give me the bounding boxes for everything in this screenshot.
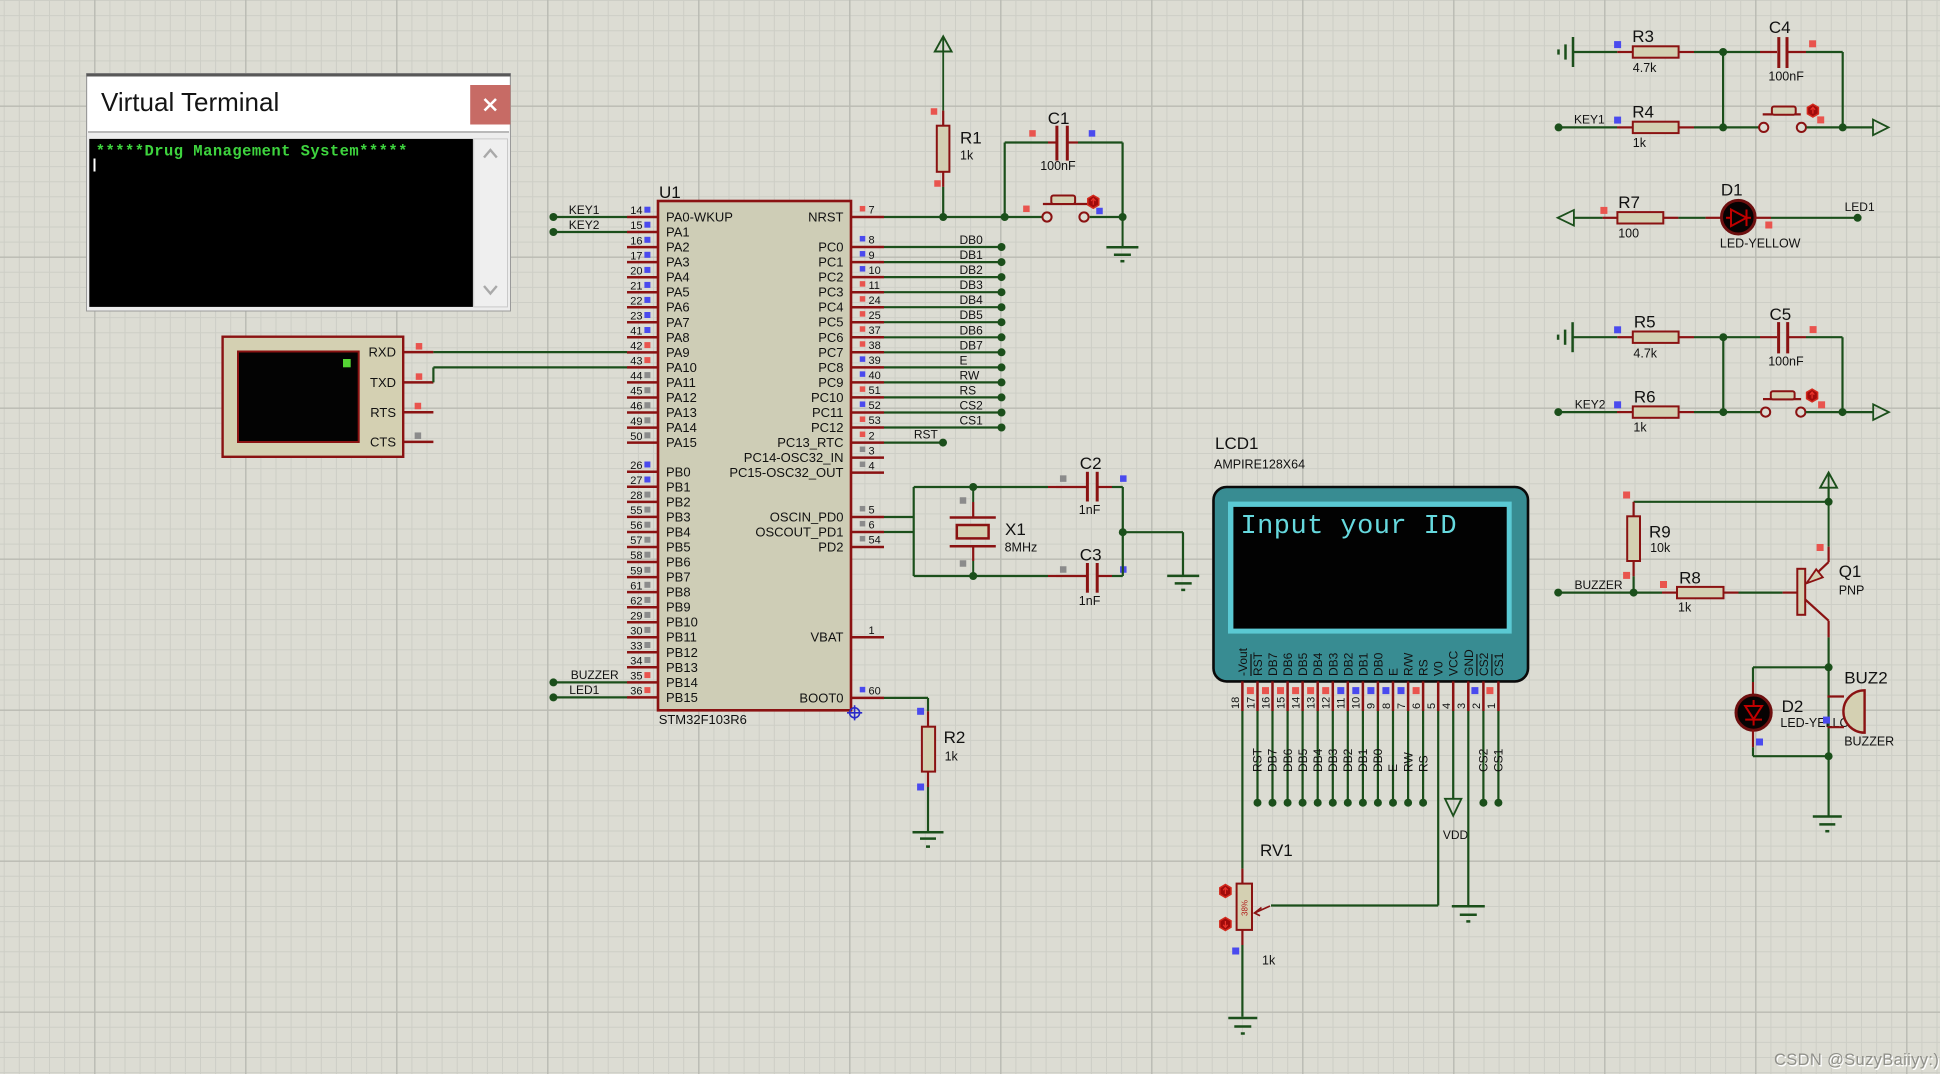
svg-text:7: 7: [1396, 703, 1408, 709]
wire R1 to NRST: [942, 187, 944, 217]
svg-text:8MHz: 8MHz: [1005, 541, 1038, 555]
node DB4: [960, 293, 984, 307]
svg-text:PB9: PB9: [666, 600, 691, 615]
svg-text:6: 6: [869, 520, 875, 532]
wire NRST net: [884, 213, 1127, 221]
ground below C1: [1106, 217, 1138, 261]
svg-text:52: 52: [869, 400, 881, 412]
wire net DB3: [884, 288, 1006, 296]
resistor R7: [1600, 193, 1678, 241]
svg-text:30: 30: [630, 625, 642, 637]
svg-text:1nF: 1nF: [1079, 594, 1101, 608]
svg-text:PA0-WKUP: PA0-WKUP: [666, 210, 733, 225]
svg-text:100nF: 100nF: [1040, 159, 1076, 173]
node CS2 below LCD: [1477, 748, 1491, 772]
wire net DB2: [884, 273, 1006, 281]
wire LCD pin 4 to VDD: [1452, 711, 1454, 799]
wire LCD pin 7 net RW: [1404, 711, 1412, 807]
svg-text:DB5: DB5: [960, 308, 984, 322]
wire D2 down: [1752, 730, 1754, 756]
svg-text:7: 7: [869, 205, 875, 217]
svg-text:R4: R4: [1632, 103, 1654, 122]
svg-text:CS2: CS2: [1477, 748, 1491, 772]
svg-text:53: 53: [869, 415, 881, 427]
node DB2: [960, 263, 984, 277]
svg-text:38%: 38%: [1241, 900, 1250, 916]
svg-text:Q1: Q1: [1839, 562, 1862, 581]
svg-text:PA8: PA8: [666, 330, 690, 345]
svg-text:C4: C4: [1769, 18, 1791, 37]
svg-text:R5: R5: [1634, 313, 1656, 332]
wire KEY2 to U1 pin 15: [549, 228, 627, 236]
capacitor C1: [1005, 109, 1123, 217]
wire BUZ2 to ground: [1827, 756, 1829, 815]
svg-text:5: 5: [869, 505, 875, 517]
svg-text:R2: R2: [944, 728, 966, 747]
svg-text:DB6: DB6: [960, 323, 984, 337]
svg-text:PB6: PB6: [666, 555, 691, 570]
IC U1 STM32F103R6: [627, 183, 884, 727]
wire net DB1: [884, 258, 1006, 266]
wire KEY2 terminal row: [1554, 408, 1617, 416]
wire LCD pin 12 net DB3: [1329, 711, 1337, 807]
svg-text:VDD: VDD: [1443, 828, 1469, 842]
svg-text:D2: D2: [1782, 697, 1804, 716]
svg-text:16: 16: [1260, 697, 1272, 709]
svg-text:27: 27: [630, 475, 642, 487]
no-ERC marker at U1 corner: [847, 705, 862, 720]
LCD1 pin stubs and numbers: [1230, 681, 1498, 711]
svg-text:35: 35: [630, 671, 642, 683]
resistor R3: [1614, 27, 1694, 75]
svg-text:PC0: PC0: [818, 240, 843, 255]
svg-text:DB0: DB0: [1371, 652, 1385, 676]
capacitor C5: [1723, 305, 1842, 369]
wire LCD pin 1 net CS1: [1494, 711, 1502, 807]
svg-text:44: 44: [630, 371, 642, 383]
svg-text:PC15-OSC32_OUT: PC15-OSC32_OUT: [729, 465, 843, 480]
svg-text:4.7k: 4.7k: [1633, 61, 1657, 75]
wire LCD pin 11 net DB2: [1344, 711, 1352, 807]
node KEY1 right: [1574, 113, 1605, 127]
svg-text:11: 11: [1336, 698, 1348, 709]
wire LCD pin 14 net DB5: [1299, 711, 1307, 807]
svg-text:24: 24: [869, 295, 881, 307]
svg-text:PC3: PC3: [818, 285, 843, 300]
svg-text:DB7: DB7: [1266, 748, 1280, 772]
node DB3 below LCD: [1326, 748, 1340, 772]
svg-text:RTS: RTS: [370, 405, 396, 420]
svg-text:DB7: DB7: [960, 338, 984, 352]
svg-text:R6: R6: [1634, 387, 1656, 406]
svg-text:21: 21: [630, 280, 642, 292]
wire collector to D2: [1753, 666, 1829, 668]
svg-text:DB1: DB1: [960, 248, 984, 262]
node DB1: [960, 248, 984, 262]
virtual terminal popup window: [87, 74, 511, 312]
svg-text:VCC: VCC: [1447, 650, 1461, 676]
svg-text:DB4: DB4: [1311, 748, 1325, 772]
wire LCD pin 17 net RST: [1254, 711, 1262, 807]
node CS2: [960, 399, 984, 413]
svg-text:*****Drug Management System***: *****Drug Management System*****: [96, 142, 408, 160]
svg-text:E: E: [1387, 668, 1401, 676]
capacitor C4: [1723, 18, 1843, 84]
node DB3: [960, 278, 984, 292]
node BUZZER right: [1575, 578, 1623, 592]
transistor Q1 PNP: [1783, 502, 1865, 638]
svg-text:PC13_RTC: PC13_RTC: [777, 435, 843, 450]
svg-text:59: 59: [630, 565, 642, 577]
svg-text:1k: 1k: [945, 750, 959, 764]
wire LCD pin 5 V0 to RV1 wiper: [1271, 711, 1438, 906]
wire LCD pin 9 net DB0: [1374, 711, 1382, 807]
svg-text:RST: RST: [1251, 747, 1265, 772]
svg-text:PC9: PC9: [818, 375, 843, 390]
resistor R8: [1660, 569, 1739, 615]
wire BUZZER to U1 pin 35: [549, 678, 627, 686]
node E: [960, 353, 968, 367]
wire C5 down to KEY2 row: [1841, 337, 1843, 412]
svg-text:PA14: PA14: [666, 420, 697, 435]
node DB5 below LCD: [1296, 748, 1310, 772]
wire riser to ground: [1123, 532, 1183, 575]
wire R5 to C5 node: [1694, 333, 1727, 341]
node RW below LCD: [1401, 752, 1415, 772]
svg-text:BOOT0: BOOT0: [799, 690, 843, 705]
wire net CS2: [884, 409, 1006, 417]
wire LED1 to U1 pin 36: [549, 693, 627, 701]
LED D1: [1706, 181, 1801, 251]
svg-text:55: 55: [630, 505, 642, 517]
svg-text:-Vout: -Vout: [1236, 647, 1250, 676]
svg-text:11: 11: [869, 280, 880, 292]
wire LCD pin 15 net DB6: [1284, 711, 1292, 807]
wire power to R1: [942, 52, 944, 111]
LED D2: [1736, 667, 1861, 745]
wire net E: [884, 363, 1006, 371]
node RW: [960, 368, 980, 382]
wire Q1 to BUZ2 riser: [1827, 667, 1829, 756]
svg-text:PA7: PA7: [666, 315, 690, 330]
resistor R2: [917, 708, 965, 791]
wire net RW: [884, 378, 1006, 386]
wire C4 node down to KEY1 row: [1722, 52, 1724, 127]
wire crystal bottom: [914, 572, 1048, 580]
svg-text:KEY2: KEY2: [569, 218, 600, 232]
svg-text:R1: R1: [960, 129, 982, 148]
svg-text:PA6: PA6: [666, 300, 690, 315]
wire R3 to C4 node: [1694, 48, 1727, 56]
capacitor C2: [1048, 454, 1127, 517]
wire D2 to BUZ2 node: [1753, 752, 1833, 760]
svg-text:2: 2: [1471, 703, 1483, 709]
svg-text:62: 62: [630, 595, 642, 607]
wire LCD pin 3 to ground: [1467, 711, 1469, 906]
wire net DB5: [884, 318, 1006, 326]
wire TXD to U1 pin 43: [433, 367, 627, 382]
wire KEY1 to U1 pin 14: [549, 213, 627, 221]
svg-text:PB5: PB5: [666, 540, 691, 555]
svg-text:16: 16: [630, 235, 642, 247]
svg-text:PC6: PC6: [818, 330, 843, 345]
svg-text:DB0: DB0: [960, 233, 984, 247]
wire top to R9: [1634, 501, 1829, 503]
svg-text:4.7k: 4.7k: [1633, 347, 1657, 361]
wire R8 to Q1 base: [1739, 591, 1783, 593]
svg-text:PC14-OSC32_IN: PC14-OSC32_IN: [744, 450, 844, 465]
svg-text:10k: 10k: [1650, 541, 1671, 555]
power +V above R1: [935, 36, 952, 51]
node KEY2 right: [1575, 398, 1606, 412]
wire ground to R3: [1573, 51, 1617, 53]
wire crystal top: [914, 483, 1048, 491]
wire R9 to BUZZER row: [1632, 576, 1634, 592]
crystal X1: [950, 487, 1038, 576]
svg-text:DB3: DB3: [960, 278, 984, 292]
svg-text:43: 43: [630, 356, 642, 368]
virtual terminal instrument VT1: [223, 337, 434, 457]
svg-text:PB8: PB8: [666, 585, 691, 600]
svg-text:KEY1: KEY1: [569, 203, 600, 217]
svg-text:41: 41: [630, 326, 642, 338]
svg-text:CS1: CS1: [1492, 748, 1506, 772]
svg-text:OSCOUT_PD1: OSCOUT_PD1: [755, 525, 843, 540]
svg-text:PC2: PC2: [818, 270, 843, 285]
wire R4 to button KEY1: [1694, 123, 1759, 131]
svg-text:PB1: PB1: [666, 479, 691, 494]
svg-text:C3: C3: [1080, 546, 1102, 565]
wire net DB0: [884, 243, 1006, 251]
svg-text:17: 17: [630, 250, 642, 262]
potentiometer RV1: [1220, 841, 1293, 968]
node DB6 below LCD: [1281, 748, 1295, 772]
svg-text:PB11: PB11: [666, 630, 697, 645]
node DB7: [960, 338, 984, 352]
push button RESET: [1023, 195, 1103, 221]
svg-text:23: 23: [630, 311, 642, 323]
wire C5 node down to KEY2 row: [1722, 337, 1724, 412]
wire R7 to D1: [1678, 217, 1705, 219]
svg-text:9: 9: [869, 250, 875, 262]
svg-text:15: 15: [1275, 697, 1287, 709]
svg-text:8: 8: [1381, 703, 1393, 709]
svg-text:TXD: TXD: [370, 375, 396, 390]
svg-text:CSDN @SuzyBaiiyy:): CSDN @SuzyBaiiyy:): [1774, 1051, 1939, 1069]
svg-text:18: 18: [1230, 697, 1242, 709]
svg-text:PA3: PA3: [666, 255, 690, 270]
node RS: [960, 383, 977, 397]
ground below LCD pin 3: [1452, 906, 1485, 921]
svg-text:DB1: DB1: [1356, 652, 1370, 676]
svg-text:VBAT: VBAT: [811, 630, 844, 645]
resistor R9: [1623, 492, 1671, 579]
svg-text:100: 100: [1618, 227, 1639, 241]
node DB4 below LCD: [1311, 748, 1325, 772]
svg-text:4: 4: [869, 460, 875, 472]
resistor R5: [1614, 313, 1694, 361]
push button KEY2: [1761, 389, 1825, 417]
svg-text:R9: R9: [1649, 523, 1671, 542]
svg-text:BUZZER: BUZZER: [1844, 735, 1894, 749]
svg-text:PA1: PA1: [666, 225, 690, 240]
svg-text:LED1: LED1: [1845, 200, 1875, 214]
svg-text:1k: 1k: [1633, 421, 1647, 435]
terminal arrow left of R7: [1558, 210, 1574, 226]
svg-text:26: 26: [630, 460, 642, 472]
node DB0 below LCD: [1371, 748, 1385, 772]
svg-text:BUZ2: BUZ2: [1844, 669, 1887, 688]
svg-text:PC4: PC4: [818, 300, 843, 315]
wire LCD pin 2 net CS2: [1479, 711, 1487, 807]
svg-text:PB14: PB14: [666, 675, 698, 690]
svg-text:PA9: PA9: [666, 345, 690, 360]
svg-text:58: 58: [630, 550, 642, 562]
wire OSCIN_PD0: [884, 516, 914, 518]
wire D1 to LED1 node: [1771, 214, 1862, 222]
svg-text:22: 22: [630, 295, 642, 307]
svg-text:PA12: PA12: [666, 390, 697, 405]
svg-text:PB15: PB15: [666, 690, 698, 705]
capacitor C3: [1048, 546, 1127, 609]
svg-text:KEY2: KEY2: [1575, 398, 1606, 412]
node LED1: [569, 683, 599, 697]
wire LCD pin 13 net DB4: [1314, 711, 1322, 807]
svg-text:15: 15: [630, 220, 642, 232]
node BUZZER: [571, 668, 619, 682]
svg-text:PC7: PC7: [818, 345, 843, 360]
svg-text:8: 8: [869, 235, 875, 247]
svg-text:U1: U1: [659, 183, 681, 202]
svg-text:33: 33: [630, 641, 642, 653]
svg-text:61: 61: [630, 580, 642, 592]
svg-text:STM32F103R6: STM32F103R6: [659, 712, 747, 727]
svg-text:DB2: DB2: [1341, 748, 1355, 772]
svg-text:KEY1: KEY1: [1574, 113, 1605, 127]
wire net DB4: [884, 303, 1006, 311]
resistor R1: [931, 108, 982, 187]
node RST: [914, 428, 939, 442]
svg-text:LCD1: LCD1: [1215, 434, 1258, 453]
node CS1 below LCD: [1492, 748, 1506, 772]
svg-text:CTS: CTS: [370, 435, 396, 450]
wire BUZZER terminal row: [1554, 589, 1662, 597]
svg-text:DB3: DB3: [1326, 748, 1340, 772]
node DB7 below LCD: [1266, 748, 1280, 772]
svg-text:1: 1: [1486, 703, 1498, 709]
svg-text:DB7: DB7: [1266, 652, 1280, 676]
svg-text:51: 51: [869, 385, 881, 397]
svg-text:1k: 1k: [1633, 136, 1647, 150]
node RS below LCD: [1416, 755, 1430, 772]
wire RV1 to ground: [1241, 945, 1243, 1017]
resistor R6: [1614, 387, 1694, 434]
svg-text:NRST: NRST: [808, 210, 843, 225]
LCD LCD1 AMPIRE128X64: [1214, 434, 1529, 681]
svg-text:PA4: PA4: [666, 270, 690, 285]
svg-text:39: 39: [869, 355, 881, 367]
svg-text:45: 45: [630, 386, 642, 398]
svg-text:AMPIRE128X64: AMPIRE128X64: [1214, 458, 1305, 472]
svg-text:RS: RS: [960, 383, 977, 397]
svg-text:28: 28: [630, 490, 642, 502]
wire R2 to ground: [927, 787, 929, 831]
svg-text:DB4: DB4: [1311, 652, 1325, 676]
svg-text:RW: RW: [1401, 752, 1415, 772]
svg-text:D1: D1: [1721, 181, 1743, 200]
svg-text:LED1: LED1: [569, 683, 599, 697]
svg-text:PC10: PC10: [811, 390, 844, 405]
svg-text:100nF: 100nF: [1768, 70, 1804, 84]
svg-text:2: 2: [869, 430, 875, 442]
wire terminal to R7: [1574, 217, 1603, 219]
svg-text:PA11: PA11: [666, 375, 696, 390]
svg-text:40: 40: [869, 370, 881, 382]
svg-text:V0: V0: [1432, 661, 1446, 676]
svg-text:1: 1: [869, 625, 875, 637]
svg-text:3: 3: [869, 445, 875, 457]
ground left of R5: [1558, 322, 1573, 352]
svg-text:R7: R7: [1618, 193, 1640, 212]
svg-text:1nF: 1nF: [1079, 503, 1101, 517]
svg-text:9: 9: [1366, 703, 1378, 709]
wire net DB7: [884, 348, 1006, 356]
svg-text:5: 5: [1426, 703, 1438, 709]
terminal arrow KEY2: [1873, 404, 1889, 420]
wire power to Q1 node: [1825, 488, 1833, 506]
svg-text:E: E: [1386, 764, 1400, 772]
node RST below LCD: [1251, 747, 1265, 772]
power VDD symbol: [1443, 799, 1469, 842]
node CS1: [960, 414, 984, 428]
node KEY1: [569, 203, 600, 217]
svg-text:DB2: DB2: [1341, 652, 1355, 676]
svg-text:1k: 1k: [1262, 954, 1276, 968]
svg-text:E: E: [960, 353, 968, 367]
wire LCD pin 18 to RV1: [1241, 711, 1243, 869]
node DB1 below LCD: [1356, 748, 1370, 772]
svg-text:PC8: PC8: [818, 360, 843, 375]
svg-text:20: 20: [630, 265, 642, 277]
svg-text:PB13: PB13: [666, 660, 698, 675]
svg-text:17: 17: [1245, 697, 1257, 709]
buzzer BUZ2: [1823, 669, 1894, 749]
svg-text:BUZZER: BUZZER: [1575, 578, 1623, 592]
svg-text:RS: RS: [1416, 755, 1430, 772]
svg-text:R8: R8: [1679, 569, 1701, 588]
node DB6: [960, 323, 984, 337]
svg-text:PA10: PA10: [666, 360, 697, 375]
watermark: [1774, 1051, 1940, 1070]
svg-text:10: 10: [869, 265, 881, 277]
svg-text:GND: GND: [1462, 649, 1476, 676]
svg-text:12: 12: [1321, 697, 1333, 709]
svg-text:10: 10: [1351, 697, 1363, 709]
svg-text:DB3: DB3: [1326, 652, 1340, 676]
svg-text:3: 3: [1456, 703, 1468, 709]
svg-text:CS2: CS2: [1477, 652, 1491, 676]
svg-text:1k: 1k: [960, 149, 974, 163]
svg-text:50: 50: [630, 431, 642, 443]
wire LCD pin 8 net E: [1389, 711, 1397, 807]
svg-text:13: 13: [1306, 697, 1318, 709]
push button KEY1: [1759, 104, 1824, 132]
svg-text:PD2: PD2: [818, 540, 843, 555]
svg-text:54: 54: [869, 535, 881, 547]
node DB0: [960, 233, 984, 247]
svg-text:PC5: PC5: [818, 315, 843, 330]
svg-text:LED-YELLOW: LED-YELLOW: [1720, 236, 1801, 250]
